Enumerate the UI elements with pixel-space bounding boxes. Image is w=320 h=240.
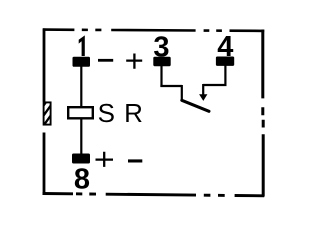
terminal pin 3 [153, 57, 170, 66]
plus (bottom, next to pin 8) [96, 152, 114, 167]
border top (dash-dot) [43, 30, 264, 31]
minus (top, next to pin 1) [98, 59, 113, 62]
svg-text:S: S [98, 98, 115, 128]
plus (top) [126, 54, 142, 69]
svg-text:8: 8 [74, 164, 90, 196]
switch blade [182, 100, 209, 111]
terminal pin 8 [72, 154, 90, 164]
border bottom (dash-dot) [43, 193, 265, 195]
svg-text:3: 3 [153, 31, 169, 63]
wire pin4 horizontal [203, 84, 227, 86]
border right (dash-dot) [261, 30, 264, 197]
wire coil to pin 8 [80, 118, 82, 155]
contact arrowhead [199, 94, 207, 101]
wire pin3 horizontal [160, 85, 182, 87]
label 1 [79, 35, 85, 56]
wire fixed-contact vertical [181, 85, 183, 100]
wire pin3 down [160, 65, 162, 87]
svg-text:R: R [124, 98, 143, 128]
wire pin1 to coil [80, 65, 82, 107]
border left (dash-dot) [43, 28, 46, 194]
terminal pin 4 [216, 57, 234, 66]
wire moving-contact vertical [202, 84, 204, 95]
terminal pin 1 [73, 57, 91, 67]
relay coil [68, 107, 93, 118]
orientation mark (hatched box on left border) [40, 90, 55, 141]
svg-text:4: 4 [217, 31, 233, 63]
minus (bottom) [128, 159, 142, 162]
wire pin4 down [224, 65, 226, 86]
